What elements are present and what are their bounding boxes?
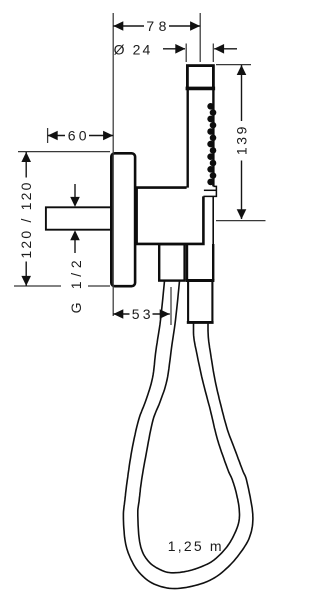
- dimension diameter 24: [114, 42, 237, 62]
- svg-text:G 1/2: G 1/2: [68, 256, 84, 314]
- label G 1/2 pointers: [68, 184, 84, 313]
- hose outlet box: [159, 244, 184, 280]
- svg-text:60: 60: [68, 127, 90, 143]
- svg-text:Ø 24: Ø 24: [114, 42, 153, 58]
- hose nut lower: [187, 282, 214, 323]
- handshower nozzle dots: [207, 103, 216, 185]
- svg-text:139: 139: [233, 124, 249, 155]
- dimension 139: [216, 65, 266, 221]
- label 1,25 m: [168, 538, 224, 554]
- dimension 120/120: [14, 152, 110, 286]
- hose nut upper: [186, 244, 215, 281]
- hose inner line: [138, 281, 240, 573]
- handle right edge beside bracket: [212, 196, 214, 244]
- supply pipe: [46, 207, 112, 229]
- svg-text:120 / 120: 120 / 120: [18, 180, 34, 258]
- hose outer line: [123, 281, 253, 589]
- wall plate: [111, 153, 135, 286]
- holder bracket box: [137, 188, 204, 244]
- handshower head: [186, 66, 216, 89]
- handshower handle: [188, 90, 214, 188]
- extension line shower axis: [199, 13, 201, 62]
- holder collar nub: [203, 186, 216, 196]
- dimension 60: [48, 127, 114, 143]
- extension line wall front: [112, 13, 114, 316]
- svg-text:1,25 m: 1,25 m: [168, 538, 224, 554]
- dimension 53: [113, 287, 171, 325]
- dimension 78: [113, 18, 200, 34]
- svg-text:53: 53: [132, 306, 154, 322]
- svg-text:78: 78: [146, 18, 171, 34]
